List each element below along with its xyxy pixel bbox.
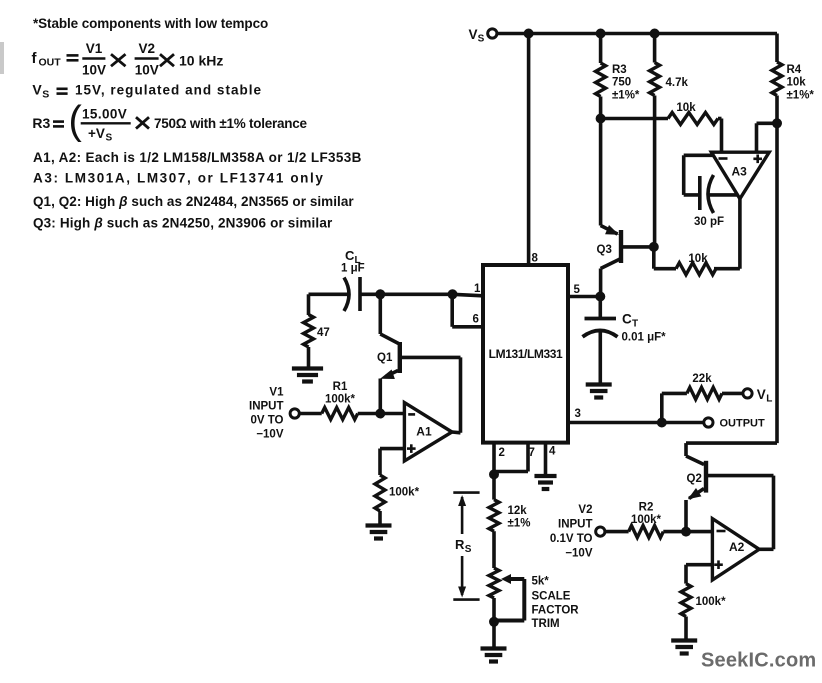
svg-text:SCALE: SCALE bbox=[532, 590, 571, 602]
svg-text:22k: 22k bbox=[692, 373, 712, 385]
svg-text:A3: A3 bbox=[732, 165, 748, 179]
svg-text:0.1V TO: 0.1V TO bbox=[550, 533, 593, 545]
svg-text:2: 2 bbox=[499, 447, 505, 459]
svg-text:A2: A2 bbox=[729, 540, 745, 554]
svg-text:R3: R3 bbox=[612, 64, 627, 76]
svg-text:TRIM: TRIM bbox=[532, 618, 560, 630]
svg-text:0.01 μF*: 0.01 μF* bbox=[622, 332, 667, 344]
svg-text:V2: V2 bbox=[139, 41, 156, 56]
svg-text:100k*: 100k* bbox=[325, 394, 356, 406]
svg-text:±1%*: ±1%* bbox=[612, 90, 640, 102]
svg-text:4: 4 bbox=[549, 446, 556, 458]
svg-text:3: 3 bbox=[575, 408, 581, 420]
svg-text:A3: LM301A, LM307, or LF13741: A3: LM301A, LM307, or LF13741 only bbox=[33, 171, 324, 186]
svg-text:C: C bbox=[622, 312, 632, 327]
svg-text:V1: V1 bbox=[86, 41, 103, 56]
svg-text:750: 750 bbox=[612, 77, 631, 89]
svg-text:−10V: −10V bbox=[256, 429, 284, 441]
svg-text:10k: 10k bbox=[676, 102, 696, 114]
svg-text:±1%*: ±1%* bbox=[787, 90, 815, 102]
svg-text:5k*: 5k* bbox=[532, 576, 550, 588]
svg-text:0V TO: 0V TO bbox=[250, 415, 283, 427]
svg-text:S: S bbox=[42, 89, 49, 101]
svg-text:−10V: −10V bbox=[565, 548, 593, 560]
svg-text:5: 5 bbox=[574, 284, 581, 296]
svg-text:Q1, Q2: High β such as 2N2484,: Q1, Q2: High β such as 2N2484, 2N3565 or… bbox=[33, 194, 354, 209]
svg-text:±1%: ±1% bbox=[508, 518, 531, 530]
svg-text:OUTPUT: OUTPUT bbox=[720, 418, 766, 430]
svg-text:4.7k: 4.7k bbox=[666, 77, 689, 89]
svg-text:LM131/LM331: LM131/LM331 bbox=[489, 347, 563, 361]
svg-text:FACTOR: FACTOR bbox=[532, 605, 580, 617]
svg-text:T: T bbox=[632, 319, 638, 330]
svg-text:Q1: Q1 bbox=[377, 352, 393, 364]
svg-text:10k: 10k bbox=[688, 253, 708, 265]
svg-text:100k*: 100k* bbox=[389, 487, 420, 499]
svg-text:V2: V2 bbox=[578, 504, 592, 516]
svg-text:SeekIC.com: SeekIC.com bbox=[701, 650, 816, 672]
svg-text:INPUT: INPUT bbox=[249, 401, 284, 413]
svg-text:750Ω with ±1% tolerance: 750Ω with ±1% tolerance bbox=[154, 116, 308, 131]
svg-text:10 kHz: 10 kHz bbox=[179, 52, 223, 68]
svg-text:12k: 12k bbox=[508, 505, 528, 517]
svg-text:6: 6 bbox=[473, 314, 479, 326]
svg-text:10k: 10k bbox=[787, 77, 807, 89]
svg-text:A1, A2: Each is 1/2 LM158/LM35: A1, A2: Each is 1/2 LM158/LM358A or 1/2 … bbox=[33, 150, 362, 165]
svg-text:INPUT: INPUT bbox=[558, 519, 593, 531]
svg-text:1: 1 bbox=[474, 283, 481, 295]
svg-text:+V: +V bbox=[88, 126, 105, 141]
svg-text:100k*: 100k* bbox=[631, 514, 662, 526]
svg-text:*Stable components with low te: *Stable components with low tempco bbox=[33, 16, 268, 31]
svg-text:(: ( bbox=[69, 99, 83, 143]
svg-text:V: V bbox=[757, 387, 766, 402]
svg-text:Q3: Q3 bbox=[597, 244, 612, 256]
svg-text:S: S bbox=[106, 132, 113, 143]
svg-text:1 μF: 1 μF bbox=[341, 263, 365, 275]
svg-text:S: S bbox=[465, 544, 472, 555]
svg-text:15.00V: 15.00V bbox=[82, 107, 127, 122]
svg-text:10V: 10V bbox=[135, 63, 159, 78]
svg-text:S: S bbox=[478, 33, 485, 44]
svg-text:Q2: Q2 bbox=[687, 473, 702, 485]
svg-text:L: L bbox=[766, 394, 772, 405]
svg-text:30 pF: 30 pF bbox=[694, 216, 724, 228]
svg-text:R2: R2 bbox=[639, 502, 654, 514]
svg-text:R: R bbox=[455, 537, 465, 552]
svg-text:OUT: OUT bbox=[39, 57, 62, 69]
svg-text:8: 8 bbox=[532, 253, 539, 265]
svg-text:C: C bbox=[345, 248, 355, 263]
svg-text:R4: R4 bbox=[787, 64, 802, 76]
svg-text:100k*: 100k* bbox=[696, 596, 727, 608]
svg-text:V: V bbox=[32, 82, 42, 98]
svg-text:10V: 10V bbox=[82, 63, 106, 78]
svg-text:R3: R3 bbox=[32, 115, 50, 131]
svg-text:15V, regulated and stable: 15V, regulated and stable bbox=[75, 83, 262, 98]
svg-text:V1: V1 bbox=[269, 387, 284, 399]
svg-text:47: 47 bbox=[317, 327, 330, 339]
svg-text:R1: R1 bbox=[333, 381, 348, 393]
svg-text:V: V bbox=[469, 27, 478, 42]
svg-text:Q3: High β such as 2N4250, 2N3: Q3: High β such as 2N4250, 2N3906 or sim… bbox=[33, 216, 333, 231]
svg-text:A1: A1 bbox=[416, 425, 432, 439]
